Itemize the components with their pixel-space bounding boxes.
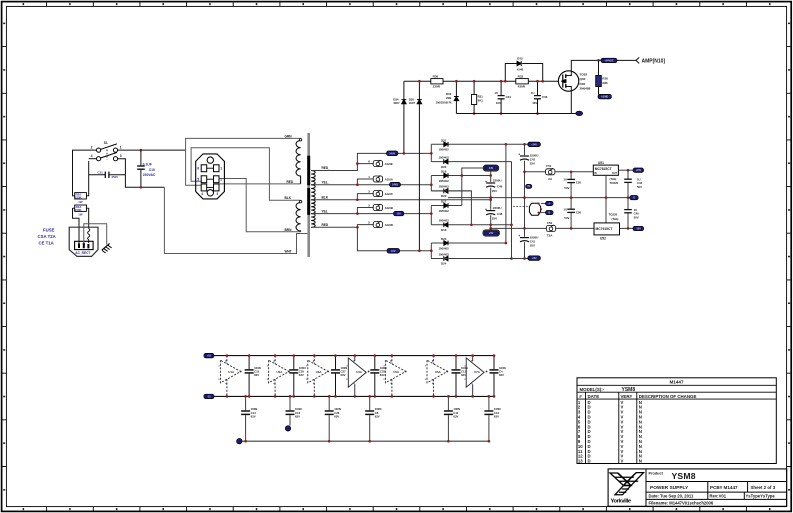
zener diode D32 [455,81,457,113]
svg-text:2N6488: 2N6488 [580,87,591,91]
svg-text:C56: C56 [576,210,582,214]
svg-text:250VAC: 250VAC [143,173,156,177]
svg-text:IN: IN [594,172,597,175]
net label pill -15 rail [204,394,214,399]
svg-text:-24V: -24V [532,257,537,260]
AC receptacle AC_RECT [69,227,98,256]
svg-text:MODEL(S):-: MODEL(S):- [580,387,605,392]
svg-text:BLK: BLK [285,196,292,200]
svg-text:BLK: BLK [322,196,329,200]
svg-text:+: + [518,234,520,238]
svg-text:IN: IN [527,185,530,188]
net label pill Q51 a [546,201,554,205]
mosfet Q30 [558,71,578,91]
net label small IN [526,184,532,188]
svg-text:2: 2 [91,146,93,150]
svg-text:-15V: -15V [636,228,641,231]
svg-text:4007: 4007 [393,101,400,105]
capacitor C43 [627,170,629,179]
wire mosfet drain to AMP port [571,60,636,70]
fuse F51 [525,171,546,173]
capacitor C8 [369,396,371,410]
capacitor C27 [335,356,337,370]
switch S1 pole A [97,148,101,152]
svg-text:A: A [548,202,550,205]
svg-text:16V: 16V [532,101,537,105]
svg-text:MC7915CT: MC7915CT [596,227,613,231]
svg-text:G: G [633,197,635,200]
wire tap1 RED_ to rectifier [311,153,431,170]
svg-text:25V: 25V [492,216,497,220]
svg-text:2200U: 2200U [493,206,502,210]
svg-text:D23: D23 [441,237,447,241]
net label pill +24VDC [528,142,541,147]
wire top rail [404,80,431,82]
capacitor C16 [289,396,291,410]
revision table [577,378,776,464]
svg-text:5K1: 5K1 [478,98,484,102]
op-amp U6A [427,356,447,397]
svg-text:RED: RED [322,223,329,227]
svg-text:4007: 4007 [409,101,416,105]
op-amp U5A [385,356,405,397]
svg-text:R32: R32 [518,75,524,79]
resistor R38 column [597,59,600,62]
svg-text:2: 2 [220,178,222,182]
wire G2 bottom drop [431,191,471,225]
rectifier diodes D23 D24 [430,243,432,259]
svg-text:WHT: WHT [285,250,292,254]
wire analog ground bus [242,440,489,442]
svg-text:AG0C: AG0C [385,192,394,196]
net label pill below R38 [598,94,611,99]
fuse F1 [356,183,359,186]
wire AC neutral vertical [88,161,90,196]
svg-text:24VB: 24VB [392,184,398,187]
wire bus C +24 column [524,144,526,155]
svg-text:+: + [518,152,520,156]
wire switch pole A to junction [118,149,186,151]
capacitor C55 [570,172,572,179]
capacitor C40 [627,198,629,210]
regulator ground ties [605,175,607,223]
net label pill +15 rail [204,353,214,358]
net label pill bottom tap [387,249,400,254]
transformer primary winding upper [296,138,301,184]
resistor R13 [73,207,75,209]
svg-text:3: 3 [216,192,218,196]
diode D33 bypass [505,64,517,82]
fuse F52 [546,225,555,231]
svg-text:63V: 63V [453,414,458,418]
capacitor C33 [374,356,376,370]
svg-text:1U: 1U [531,91,535,95]
svg-text:RED_: RED_ [322,166,331,170]
svg-text:25V: 25V [530,244,535,248]
svg-text:1W: 1W [78,212,83,216]
svg-text:GRN: GRN [285,134,293,138]
capacitor C56 [570,198,572,209]
svg-text:1N5402: 1N5402 [439,155,450,159]
svg-text:50V: 50V [637,185,642,189]
rectifier diodes D19 D20 [430,176,432,191]
svg-text:Q30: Q30 [580,77,586,81]
svg-text:F52: F52 [547,221,553,225]
svg-text:U51: U51 [598,161,604,165]
svg-text:AGND: AGND [601,96,608,99]
svg-text:U4A: U4A [356,370,363,374]
wire U52 output [620,227,634,229]
resistor R30 [431,79,443,84]
svg-text:63V: 63V [251,414,256,418]
svg-text:U6A: U6A [435,370,442,374]
wire tap5 jog down to rectifier 4 [357,227,431,250]
svg-text:4: 4 [201,192,203,196]
title block [608,469,787,506]
svg-text:TO92: TO92 [580,73,588,77]
svg-text:1: 1 [120,146,122,150]
svg-text:D18: D18 [441,228,447,232]
svg-text:1N5402: 1N5402 [439,179,450,183]
capacitor C41 [520,237,529,239]
svg-text:24V: 24V [489,167,494,170]
svg-text:U7A: U7A [474,370,481,374]
svg-text:+15V: +15V [635,169,641,172]
svg-text:430R: 430R [518,85,526,89]
svg-text:D30: D30 [580,82,586,86]
capacitor C11 [89,174,106,176]
svg-text:C49: C49 [497,184,503,188]
wire C11 right down to bottom [125,175,164,188]
wire tap5 RED [311,226,357,228]
svg-text:15V: 15V [397,213,402,216]
capacitor C20 [293,356,295,370]
svg-text:VER#: VER# [621,394,633,399]
capacitor C15 [248,356,250,370]
svg-text:C36: C36 [542,95,548,99]
wire AC live from receptacle to switch [73,150,97,196]
net label round agnd [237,439,242,444]
wire RED to winding [219,183,301,185]
svg-text:OUT: OUT [612,172,618,175]
svg-text:250V: 250V [112,175,119,179]
svg-text:1W: 1W [78,200,83,204]
svg-text:AG0B: AG0B [385,206,394,210]
transistor Q51 thermal sense [529,203,540,215]
svg-text:2200U: 2200U [493,179,502,183]
svg-text:DESCRIPTION OF CHANGE: DESCRIPTION OF CHANGE [639,394,697,399]
capacitor C12 [488,396,490,410]
svg-text:1N5402: 1N5402 [439,209,450,213]
capacitor C34 [500,81,502,95]
capacitor C26 [328,396,330,410]
svg-text:4148: 4148 [517,68,524,72]
svg-text:Yorkville: Yorkville [611,498,631,504]
svg-text:+24V: +24V [531,143,537,146]
wire bus A [505,144,507,243]
svg-text:U52: U52 [600,237,606,241]
svg-text:PCB# M1447: PCB# M1447 [710,485,738,490]
rectifier diodes D17 D18 [430,206,432,225]
resistor R32 [516,79,529,84]
svg-text:24VA: 24VA [389,152,395,155]
svg-text:AC_RECT: AC_RECT [75,251,90,255]
svg-text:C10: C10 [149,168,155,172]
switch S1 pole B [97,157,101,161]
svg-text:D33: D33 [517,57,523,61]
wire bottom negative rail [431,258,528,260]
switch mechanical link [106,150,108,160]
wire neutral to receptacle [88,208,90,229]
svg-text:1U: 1U [494,91,498,95]
wire bus B [511,162,513,259]
svg-text:AG0E: AG0E [385,162,393,166]
transformer primary winding lower [296,200,301,231]
op-amp U2A [269,356,289,397]
svg-text:CSA T2A: CSA T2A [38,234,56,239]
svg-text:U2A: U2A [277,370,284,374]
svg-text:16V: 16V [496,101,501,105]
svg-text:AMP[N10]: AMP[N10] [642,59,666,65]
chassis ground symbol [102,243,112,253]
fuse F6 [356,162,359,165]
wire dashed to Q51 [513,205,529,207]
svg-text:1N5402: 1N5402 [439,148,450,152]
wire G2 top to C49 node [460,174,463,177]
svg-text:NNNNNNNNNNNNN: NNNNNNNNNNNNN [639,400,642,464]
wire white to transformer shield [164,187,307,253]
svg-text:VVVVVVVVVVVVV: VVVVVVVVVVVVV [621,400,624,464]
svg-text:+24VDC: +24VDC [604,60,613,63]
svg-text:50V: 50V [634,216,639,220]
svg-text:C48: C48 [497,212,503,216]
svg-text:1U: 1U [563,178,567,182]
svg-text:M1447: M1447 [669,380,683,385]
svg-text:CE T1A: CE T1A [39,241,54,246]
net label pill tap4 [394,211,404,215]
svg-text:B: B [548,212,550,215]
capacitor C4 [493,356,495,370]
svg-text:Rev:V01: Rev:V01 [710,493,727,498]
net label pill tap2 [390,182,401,186]
wire G3 top rise [461,176,463,206]
svg-text:TO220: TO220 [609,212,618,216]
Yorkville logo [610,473,644,495]
wire BRN to winding [219,179,301,232]
svg-text:3: 3 [120,154,122,158]
svg-text:63V: 63V [461,373,466,377]
svg-text:50V: 50V [564,186,569,190]
svg-text:YSM8: YSM8 [622,387,636,393]
svg-text:50V: 50V [564,216,569,220]
net label pill Q51 b [546,211,554,215]
svg-text:U1A: U1A [228,370,235,374]
net label pill drain [601,58,617,63]
net label pill bottom neg [528,256,541,261]
svg-text:Sheet 2 of 3: Sheet 2 of 3 [751,485,776,490]
wire tap2 YEL_ [311,184,431,186]
svg-text:1N5402: 1N5402 [439,246,450,250]
wire Q51 to pills [541,203,546,205]
svg-text:Filename: M1447V01schsch2006: Filename: M1447V01schsch2006 [649,501,714,506]
svg-text:0.1UF: 0.1UF [143,162,152,166]
fuse inside receptacle [88,229,90,243]
svg-text:D22: D22 [441,165,447,169]
net label source oval [576,111,583,115]
net label pill below C48 [483,230,500,236]
svg-text:Date: Tue Sep 20, 2011: Date: Tue Sep 20, 2011 [649,493,695,498]
svg-text:YsTypeYsType: YsTypeYsType [746,493,776,498]
svg-text:25V: 25V [530,162,535,166]
svg-text:D24: D24 [441,262,447,266]
fuse F3 [356,198,359,201]
svg-text:1N5402: 1N5402 [439,185,450,189]
wire opamp -rail [214,395,494,397]
svg-text:4: 4 [91,154,93,158]
resistor R31 [473,81,475,113]
svg-text:63V: 63V [334,414,339,418]
svg-text:24V: 24V [489,232,494,235]
svg-text:63V: 63V [295,414,300,418]
svg-text:S1: S1 [104,141,108,145]
svg-text:DDDDDDDDDDDDD: DDDDDDDDDDDDD [588,400,591,464]
svg-text:C34: C34 [506,95,512,99]
svg-text:RED: RED [287,180,294,184]
svg-text:Product: Product [649,471,664,475]
svg-text:63V: 63V [254,373,259,377]
svg-text:T2A: T2A [547,234,554,238]
net label pill -15V [633,226,644,230]
net label pill +24V unreg [483,165,499,171]
svg-text:+: + [485,208,487,212]
net label pill tap1 [387,151,398,156]
svg-text:U3A: U3A [316,370,323,374]
diode D34 column [403,81,405,153]
wire bottom rail top-section [456,113,576,115]
capacitor C10 [140,149,143,152]
transformer T1 core [307,133,310,257]
wire loop GRN [186,138,301,150]
svg-text:1N5402: 1N5402 [439,219,450,223]
svg-text:FUSE: FUSE [43,228,55,233]
op-amp U7A [466,356,484,397]
wire opamp +rail [214,355,494,357]
svg-text:C55: C55 [576,181,582,185]
capacitor C14 [245,396,247,410]
svg-text:20B: 20B [446,96,451,100]
svg-text:15V: 15V [391,250,396,253]
svg-text:1: 1 [220,167,222,171]
capacitor C48 [490,200,492,210]
svg-text:AG0A: AG0A [385,177,394,181]
net label pill gnd mid [630,196,638,200]
svg-text:C11: C11 [98,170,104,174]
capacitor C42 [520,155,529,157]
wire mosfet source down [570,92,572,114]
svg-text:+15: +15 [207,355,212,358]
capacitor C11 [447,396,449,410]
capacitor C49 [490,170,492,182]
svg-text:R30: R30 [433,75,439,79]
op-amp U3A [308,356,328,397]
svg-text:U5A: U5A [393,370,400,374]
net label pill +15V [633,168,644,172]
diode D35 column [418,81,420,251]
svg-text:1N5402: 1N5402 [439,252,450,256]
svg-text:6: 6 [197,167,199,171]
svg-text:D17: D17 [441,200,447,204]
fuse F5 [356,226,359,229]
svg-text:220R: 220R [433,85,441,89]
capacitor C13 [455,356,457,370]
svg-text:63V: 63V [380,373,385,377]
svg-text:POWER SUPPLY: POWER SUPPLY [650,485,689,491]
wire tap4 YEL [311,213,431,215]
rectifier diodes D21 D22 [430,144,432,161]
wire U51 output [618,169,633,171]
svg-text:63V: 63V [499,373,504,377]
resistor R10 [73,195,75,197]
wire pole B right to C11 [118,159,126,175]
svg-text:YSM8: YSM8 [672,471,696,481]
svg-text:63V: 63V [299,373,304,377]
capacitor C36 [537,81,539,95]
wire tap3 BLK mid rail [311,199,491,201]
port AMP[N10] [636,57,639,63]
svg-text:DATE: DATE [588,394,600,399]
svg-text:YEL_: YEL_ [322,180,330,184]
svg-text:63V: 63V [494,414,499,418]
svg-text:BRN: BRN [285,228,293,232]
svg-text:63V: 63V [375,414,380,418]
wire loop2 to BLK winding [191,148,301,201]
wire ground pin to chassis [84,224,107,245]
svg-text:TO220: TO220 [610,181,619,185]
transformer secondary windings [311,171,315,185]
svg-text:39K: 39K [602,81,608,85]
svg-text:D20: D20 [441,194,447,198]
connector J1 voltage selector [196,154,225,199]
svg-text:63V: 63V [341,373,346,377]
wire pole B left [89,158,97,160]
wire F52 feed [491,227,594,229]
svg-text:(Tab): (Tab) [612,217,619,221]
wire mid rail 0V [448,197,630,199]
regulator U52 MC7915CT [594,223,620,235]
svg-text:D19: D19 [441,170,447,174]
svg-text:F51: F51 [546,164,552,168]
regulator U51 MC7815CT [593,165,618,175]
svg-text:5: 5 [197,178,199,182]
svg-text:1N5250B PL: 1N5250B PL [436,100,453,104]
svg-text:YEL: YEL [322,209,328,213]
svg-text:D21: D21 [441,138,447,142]
op-amp U1A [220,356,240,397]
svg-text:R38: R38 [602,77,608,81]
svg-text:25V: 25V [492,189,497,193]
svg-text:+: + [485,180,487,184]
op-amp U4A [348,356,366,397]
svg-text:MC7815CT: MC7815CT [595,167,612,171]
wire AC receptacle drop [73,208,80,243]
svg-text:AG0D: AG0D [385,223,394,227]
fuse F2 [356,212,359,215]
svg-text:1U: 1U [563,207,567,211]
